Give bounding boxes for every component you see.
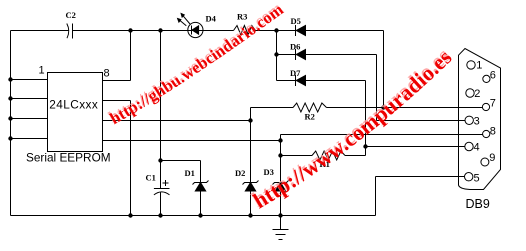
diode D6: [296, 49, 306, 60]
wire left vertical rail: [10, 31, 12, 216]
wire R1 right leg: [345, 155, 366, 157]
zener D2: [243, 181, 259, 192]
ground: [273, 216, 289, 240]
svg-text:D2: D2: [235, 168, 245, 178]
svg-text:3: 3: [474, 115, 480, 127]
DB9 pin 5: [465, 173, 473, 181]
DB9 pin 4: [465, 142, 473, 150]
svg-text:D3: D3: [264, 167, 274, 177]
svg-text:1: 1: [39, 65, 45, 77]
label R1: [320, 159, 330, 169]
DB9 pin 7: [482, 103, 489, 110]
LED D4: [178, 14, 203, 38]
svg-text:C2: C2: [66, 10, 76, 20]
DB9 pin digit 9: [489, 152, 495, 164]
DB9 pin 3: [465, 116, 473, 124]
DB9 pin digit 8: [490, 125, 496, 137]
diode D7: [296, 75, 306, 86]
zener D3: [273, 181, 289, 192]
wire IC pin6 to R2 node: [103, 120, 251, 122]
wire R2 left leg: [251, 108, 294, 121]
label R2: [305, 112, 315, 122]
svg-text:Serial EEPROM: Serial EEPROM: [26, 151, 111, 165]
DB9 pin 9: [481, 158, 489, 166]
label D1: [185, 168, 195, 178]
capacitor C2: [67, 24, 73, 39]
pin number 1 label: [39, 65, 45, 77]
wire R1 left leg: [281, 155, 313, 157]
wire D6 right to DB9 pin3: [306, 55, 466, 121]
svg-text:D1: D1: [185, 168, 195, 178]
wire top middle: [73, 30, 234, 32]
svg-text:9: 9: [489, 152, 495, 164]
svg-text:7: 7: [490, 98, 496, 110]
DB9 pin digit 3: [474, 115, 480, 127]
label D7: [290, 68, 301, 78]
wire IC pin1: [11, 79, 48, 81]
svg-text:8: 8: [104, 68, 110, 80]
capacitor C1: [154, 180, 170, 195]
DB9 pin digit 2: [474, 88, 480, 100]
DB9 pin digit 4: [474, 142, 480, 154]
svg-text:C1: C1: [146, 173, 156, 183]
wire top right after R3: [256, 30, 384, 32]
node junction dots: [8, 28, 385, 217]
label D4: [206, 14, 217, 24]
wire IC pin8 to top: [103, 31, 131, 81]
wire node D3 to DB9 pin8: [281, 135, 483, 141]
watermark webcindario: [105, 0, 287, 128]
label D5: [291, 16, 301, 26]
wire C1 branch vertical: [160, 31, 162, 216]
zener D1: [193, 181, 209, 192]
wire D3 branch vertical: [280, 141, 282, 216]
svg-text:D5: D5: [291, 16, 301, 26]
DB9 label: [466, 197, 490, 211]
DB9 pin digit 6: [490, 70, 496, 82]
wire D2 branch vertical: [250, 121, 252, 216]
label D2: [235, 168, 245, 178]
DB9 pin 8: [483, 130, 490, 137]
wire R1 node to DB9 pin4: [366, 146, 465, 148]
wire R2 right to DB9 pin7: [327, 107, 483, 109]
label D3: [264, 167, 274, 177]
resistor R2: [293, 103, 327, 112]
resistor R3: [234, 26, 256, 35]
wire IC pin4: [11, 138, 48, 140]
wire ground to DB9 pin5: [376, 177, 465, 216]
wire D7 right to R1 node: [306, 81, 366, 156]
op-amp U1 box (serial EEPROM IC): [48, 73, 103, 152]
svg-text:6: 6: [490, 70, 496, 82]
DB9 pin 6: [483, 75, 490, 82]
DB9 connector shell: [459, 49, 501, 190]
wire diode bus vertical: [276, 31, 278, 81]
watermark compuradio: [248, 44, 457, 214]
wire D7 left: [277, 80, 296, 82]
diode D5: [296, 25, 306, 36]
svg-text:D4: D4: [206, 14, 217, 24]
svg-text:http://www.compuradio.es: http://www.compuradio.es: [249, 45, 456, 213]
wire IC pin7 to bottom: [103, 101, 131, 216]
label R3: [237, 12, 247, 22]
DB9 pin 2: [466, 89, 474, 97]
IC value 24LCxxx: [49, 98, 98, 112]
resistor R1: [312, 151, 345, 160]
label C1: [146, 173, 156, 183]
wire IC pin5 to D3 node: [103, 140, 281, 142]
wire D6 left: [277, 54, 296, 56]
svg-text:24LCxxx: 24LCxxx: [49, 98, 98, 112]
DB9 pin digit 7: [490, 98, 496, 110]
svg-text:1: 1: [476, 60, 482, 72]
svg-text:5: 5: [474, 172, 480, 184]
wire IC pin3: [11, 118, 48, 120]
pin number 8 label: [104, 68, 110, 80]
svg-text:DB9: DB9: [466, 197, 490, 211]
DB9 pin digit 1: [476, 60, 482, 72]
svg-text:http://ghbu.webcindario.com: http://ghbu.webcindario.com: [107, 0, 288, 128]
svg-text:D7: D7: [290, 68, 301, 78]
DB9 pin 1: [467, 61, 475, 69]
label C2: [66, 10, 76, 20]
IC name Serial EEPROM: [26, 151, 111, 165]
DB9 pin digit 5: [474, 172, 480, 184]
svg-text:D6: D6: [290, 42, 300, 52]
svg-text:2: 2: [474, 88, 480, 100]
label D6: [290, 42, 300, 52]
svg-text:8: 8: [490, 125, 496, 137]
svg-text:4: 4: [474, 142, 480, 154]
wire IC pin2: [11, 98, 48, 100]
svg-text:R2: R2: [305, 112, 315, 122]
wire D5 right to pin7 line: [383, 31, 385, 108]
wire D1 branch: [161, 161, 201, 216]
wire bottom ground rail: [11, 215, 376, 217]
wire top left: [11, 30, 69, 32]
